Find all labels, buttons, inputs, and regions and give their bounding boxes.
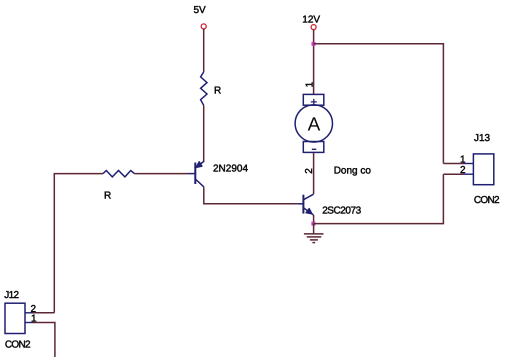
arrow of 2SC2073 emitter (points away from bar) <box>306 209 312 214</box>
connector J13 <box>473 154 493 185</box>
resistor R (vertical) <box>201 72 207 105</box>
ground <box>304 234 324 243</box>
wire motor to 2SC2073 collector <box>313 152 315 194</box>
svg-text:2SC2073: 2SC2073 <box>322 206 361 217</box>
wire J13 pin 1 <box>443 163 463 165</box>
power symbol 12V <box>311 25 316 30</box>
power symbol 5V <box>201 24 206 29</box>
svg-text:J12: J12 <box>4 290 19 301</box>
svg-text:2N2904: 2N2904 <box>213 163 248 174</box>
transistor Q2 2SC2073 (NPN) <box>297 194 313 215</box>
wire junction to J13 pin 2 <box>314 174 444 223</box>
svg-text:R: R <box>104 191 111 202</box>
wire J12 pin 2 <box>33 312 54 314</box>
svg-text:CON2: CON2 <box>474 195 500 206</box>
wire resistor R to 2N2904 emitter <box>203 105 205 161</box>
svg-text:Dong co: Dong co <box>334 166 372 177</box>
minus mark in motor bottom box <box>312 148 317 150</box>
svg-text:J13: J13 <box>474 133 491 144</box>
svg-text:CON2: CON2 <box>5 340 31 351</box>
connector J12 <box>5 303 25 333</box>
svg-text:R: R <box>214 86 221 97</box>
pin 1 of J12 <box>25 322 33 324</box>
wire J13 pin 2 <box>443 173 463 175</box>
arrow of 2N2904 emitter (points to bar) <box>196 162 202 168</box>
transistor Q1 2N2904 (PNP) <box>189 161 205 187</box>
svg-text:A: A <box>308 115 321 136</box>
motor M (Dong co) <box>295 94 332 152</box>
wire 2SC2073 emitter to junction <box>313 215 315 224</box>
wire 12V rail to J13 pin 1 <box>314 44 444 164</box>
wire resistor R to J12 pin 2 <box>54 174 103 313</box>
pin 2 of J12 <box>25 312 33 314</box>
plus mark in motor top box <box>311 99 317 105</box>
junction at 12V rail <box>312 42 316 46</box>
wire 5V circle to resistor R <box>203 29 205 72</box>
resistor R (horizontal) <box>103 171 134 177</box>
wire J12 pin 1 to bottom edge <box>33 323 55 357</box>
svg-text:5V: 5V <box>194 5 207 16</box>
junction at emitter <box>311 222 315 226</box>
wire 2N2904 collector to 2SC2073 base <box>204 187 297 204</box>
wire base of 2N2904 to resistor R (horizontal) <box>134 173 188 175</box>
wire junction to ground <box>313 224 315 234</box>
pin 1 of J13 <box>463 163 473 165</box>
svg-text:12V: 12V <box>302 14 320 25</box>
svg-text:1: 1 <box>305 81 316 87</box>
pin 2 of J13 <box>463 173 473 175</box>
wire 12V to motor pin 1 <box>313 30 315 95</box>
